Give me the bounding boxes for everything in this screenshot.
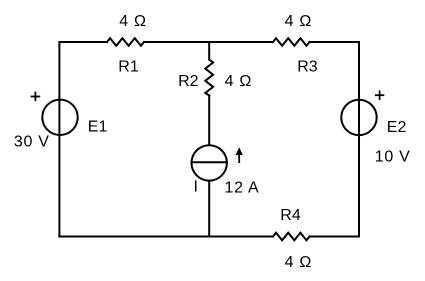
- svg-text:4 Ω: 4 Ω: [119, 13, 146, 30]
- wire top-left (node between E1 and R1): [59, 41, 107, 43]
- resistor R4: [273, 233, 310, 241]
- current source arrow: [236, 147, 243, 163]
- svg-text:E2: E2: [387, 119, 407, 136]
- svg-text:4 Ω: 4 Ω: [225, 73, 252, 90]
- svg-text:R1: R1: [118, 59, 139, 76]
- svg-text:12 A: 12 A: [225, 179, 260, 196]
- plus sign of E1: [31, 92, 41, 101]
- svg-text:I: I: [194, 179, 198, 196]
- svg-text:R2: R2: [178, 73, 199, 90]
- plus sign of E2: [375, 91, 384, 100]
- voltage source E2 (circle): [341, 100, 376, 135]
- voltage source E1 (circle): [42, 100, 77, 135]
- wire right branch (through E2): [358, 42, 360, 237]
- wire top-middle-right (node A to R3): [209, 41, 273, 43]
- wire middle top (node A to R2): [208, 42, 210, 60]
- wire bottom-left (node B to E1 branch): [59, 236, 209, 238]
- wire middle (R2 to current source): [208, 96, 210, 146]
- svg-text:10 V: 10 V: [375, 148, 411, 165]
- wire left branch (through E1): [58, 42, 60, 237]
- resistor R2: [205, 60, 213, 96]
- wire bottom-right (R4 to E2 branch): [310, 236, 360, 238]
- svg-text:R3: R3: [297, 59, 318, 76]
- wire top-right (R3 to E2 branch): [310, 41, 360, 43]
- svg-text:30 V: 30 V: [14, 134, 50, 151]
- resistor R1: [107, 38, 144, 46]
- resistor R3: [273, 38, 310, 46]
- svg-text:E1: E1: [88, 118, 108, 135]
- svg-text:4 Ω: 4 Ω: [285, 13, 312, 30]
- wire bottom-middle (node B to R4): [209, 236, 273, 238]
- wire middle bottom (current source to node B): [208, 181, 210, 237]
- wire top-middle (R1 to node A): [144, 41, 209, 43]
- current source I (circle with bar): [192, 145, 227, 180]
- svg-text:4 Ω: 4 Ω: [285, 254, 312, 271]
- svg-text:R4: R4: [280, 207, 301, 224]
